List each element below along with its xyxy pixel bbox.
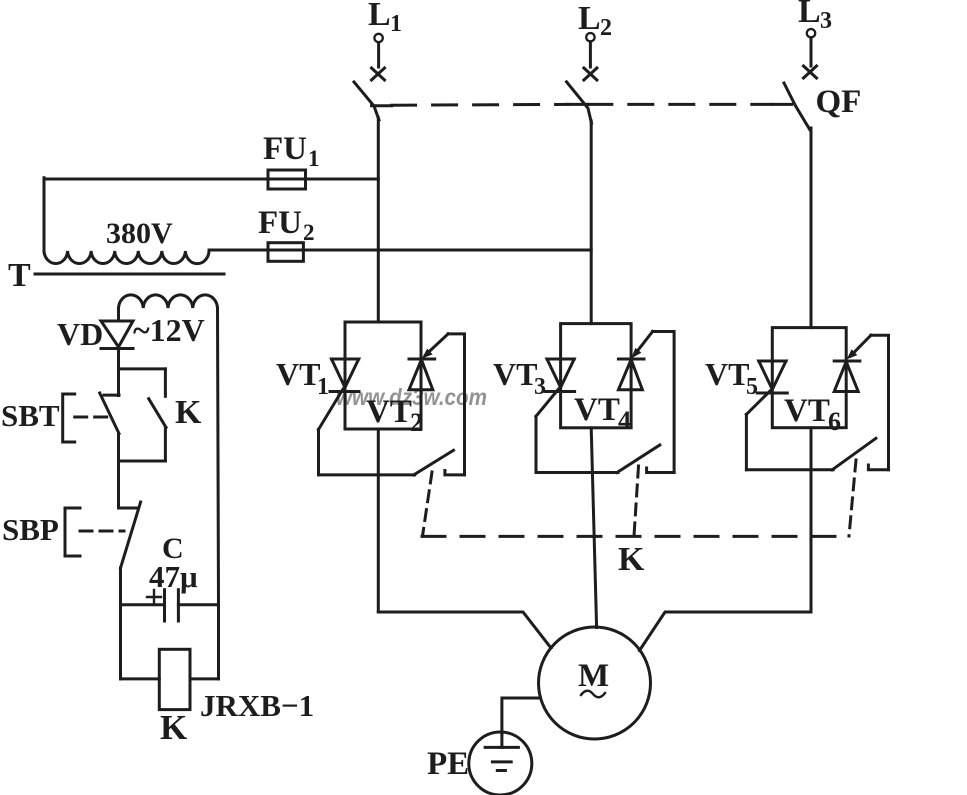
svg-text:PE: PE xyxy=(427,746,469,782)
wire coil right lead xyxy=(190,677,219,680)
contact K self-hold blade xyxy=(149,399,166,428)
fuse FU1 label xyxy=(263,131,320,171)
node L2 xyxy=(578,0,612,41)
wire parallel branch top xyxy=(119,367,166,370)
terminal L1 xyxy=(374,34,382,42)
terminal L3 xyxy=(807,29,815,37)
wire phase 2 vertical xyxy=(590,121,593,324)
wire block1 gate bottom xyxy=(319,473,415,476)
wire block2 gate left vertical xyxy=(535,416,538,472)
contact K self-hold lower lead xyxy=(164,427,167,461)
wire block2 right vertical xyxy=(653,332,675,473)
svg-text:JRXB−1: JRXB−1 xyxy=(200,688,314,723)
wire motor right feeder xyxy=(640,612,812,651)
wire L3 lead xyxy=(810,38,813,66)
svg-text:3: 3 xyxy=(820,8,832,34)
thyristor block 3 rectangle xyxy=(772,328,846,428)
pushbutton SBT blade xyxy=(100,393,119,434)
svg-text:QF: QF xyxy=(816,84,862,120)
transformer T secondary winding xyxy=(119,295,218,308)
thyristor VT4 xyxy=(618,358,644,361)
motor M circle xyxy=(539,627,651,739)
breaker QF pole 3 blade xyxy=(784,83,811,131)
wire parallel branch bottom xyxy=(119,460,166,463)
wire phase 1 vertical xyxy=(377,118,380,322)
breaker QF pole 1 blade xyxy=(354,82,379,120)
contact K bypass 3 fixed xyxy=(868,465,888,470)
transformer T core xyxy=(35,273,224,276)
pushbutton SBT actuator dashed xyxy=(75,416,112,419)
dashed linkage riser 3 xyxy=(849,460,856,536)
svg-text:6: 6 xyxy=(828,407,841,436)
ground symbol xyxy=(500,734,503,747)
thyristor VT1 gate xyxy=(319,389,344,430)
wire FU2 line xyxy=(209,249,591,252)
thyristor block 1 rectangle xyxy=(345,322,421,429)
wire left branch down xyxy=(117,434,120,509)
svg-text:L: L xyxy=(368,0,391,33)
wire below SBP xyxy=(119,568,122,679)
diode VD xyxy=(101,321,133,347)
fuse FU1 xyxy=(268,170,306,189)
svg-text:VT: VT xyxy=(705,356,749,392)
earth PE circle xyxy=(469,732,532,795)
fuse FU2 label xyxy=(258,205,315,245)
contact K bypass 2 blade xyxy=(617,445,660,473)
wire phase 3 lower vertical xyxy=(810,428,813,612)
svg-text:L: L xyxy=(798,0,821,30)
capacitor C right lead xyxy=(178,603,218,606)
wire phase 2 lower vertical xyxy=(591,428,596,628)
breaker cross mark L1 xyxy=(372,68,385,80)
thyristor VT5 xyxy=(759,360,786,363)
thyristor VT3 gate xyxy=(536,389,559,416)
svg-text:1: 1 xyxy=(317,374,329,400)
capacitor plus sign xyxy=(147,596,161,598)
pushbutton SBP bracket xyxy=(65,508,80,556)
svg-text:4: 4 xyxy=(618,406,631,435)
wire secondary left drop xyxy=(117,308,120,321)
wire L1 lead xyxy=(377,43,380,68)
dashed linkage riser 2 xyxy=(634,466,639,536)
svg-text:SBT: SBT xyxy=(1,398,60,433)
svg-text:2: 2 xyxy=(410,408,423,437)
svg-text:380V: 380V xyxy=(106,217,173,250)
thyristor VT5 label xyxy=(705,356,758,400)
QF pole 3 fixed tick xyxy=(773,103,792,106)
svg-text:K: K xyxy=(175,394,202,431)
contact K bypass 3 blade xyxy=(832,438,876,470)
svg-text:VT: VT xyxy=(366,394,412,430)
svg-text:VT: VT xyxy=(784,393,830,429)
thyristor VT3 xyxy=(547,358,574,361)
wire phase 1 lower vertical xyxy=(377,429,380,612)
thyristor block 2 rectangle xyxy=(561,324,632,428)
thyristor VT3 label xyxy=(493,356,546,400)
svg-text:K: K xyxy=(618,541,645,578)
contact K bypass 2 fixed xyxy=(647,468,675,473)
contact K self-hold upper lead xyxy=(164,369,167,396)
pushbutton SBT bracket xyxy=(63,394,75,442)
wire block1 right vertical xyxy=(448,334,464,475)
svg-text:FU: FU xyxy=(263,131,307,167)
svg-text:~12V: ~12V xyxy=(133,312,205,348)
breaker cross mark L2 xyxy=(584,68,597,80)
thyristor VT6 xyxy=(834,360,860,363)
thyristor VT6 gate xyxy=(851,335,871,356)
pushbutton SBP actuator dashed xyxy=(80,530,124,533)
svg-text:VT: VT xyxy=(574,392,620,428)
thyristor VT1 label xyxy=(276,356,329,400)
contact K bypass 1 fixed xyxy=(445,471,465,475)
thyristor VT2 gate xyxy=(426,334,449,355)
wire transformer left riser xyxy=(43,178,46,251)
node L3 xyxy=(798,0,832,34)
breaker cross mark L3 xyxy=(804,66,817,78)
dashed linkage K horizontal xyxy=(422,535,848,538)
svg-text:VT: VT xyxy=(276,356,320,392)
dashed linkage riser 1 xyxy=(423,472,433,536)
terminal L2 xyxy=(586,33,594,41)
thyristor VT1 xyxy=(332,358,359,361)
wire block1 gate left vertical xyxy=(317,430,320,475)
svg-text:1: 1 xyxy=(308,146,320,171)
thyristor VT4 gate xyxy=(635,332,653,355)
QF pole 2 fixed tick xyxy=(568,103,588,106)
fuse FU2 xyxy=(268,243,303,262)
wire below diode xyxy=(117,349,120,396)
pushbutton SBT fixed tick xyxy=(104,394,119,397)
wire block3 right vertical xyxy=(871,335,889,470)
transformer T primary winding xyxy=(44,251,209,264)
thyristor VT2 xyxy=(409,358,435,361)
thyristor VT6 label xyxy=(784,393,841,436)
pushbutton SBP fixed tick xyxy=(121,507,137,510)
thyristor VT2 label xyxy=(366,394,423,437)
capacitor C left lead xyxy=(121,603,165,606)
svg-text:5: 5 xyxy=(746,374,758,400)
wire block3 gate bottom xyxy=(746,468,833,471)
svg-text:47μ: 47μ xyxy=(149,559,198,594)
svg-text:SBP: SBP xyxy=(2,512,59,547)
QF linkage dashed xyxy=(392,103,568,107)
svg-text:FU: FU xyxy=(258,205,302,241)
capacitor C plates xyxy=(163,590,166,621)
wire motor left feeder xyxy=(378,612,551,648)
motor tilde xyxy=(581,691,605,698)
QF pole 1 fixed tick xyxy=(372,104,392,107)
svg-text:2: 2 xyxy=(600,15,612,41)
wire phase 3 vertical xyxy=(810,128,813,328)
svg-text:VT: VT xyxy=(493,356,537,392)
wire secondary return vertical xyxy=(218,308,219,679)
wire L2 lead xyxy=(589,42,592,67)
thyristor VT4 label xyxy=(574,392,631,435)
svg-text:M: M xyxy=(578,658,609,694)
wire FU1 line xyxy=(44,178,378,181)
pushbutton SBP blade xyxy=(121,502,141,568)
svg-text:1: 1 xyxy=(390,11,402,37)
wire coil left lead xyxy=(121,677,160,680)
svg-text:K: K xyxy=(160,708,187,747)
svg-text:L: L xyxy=(578,0,601,37)
wire block3 gate left vertical xyxy=(745,414,748,469)
thyristor VT5 gate xyxy=(746,391,770,414)
node L1 xyxy=(368,0,402,37)
svg-text:T: T xyxy=(8,257,31,294)
svg-text:3: 3 xyxy=(534,374,546,400)
wire block2 gate bottom xyxy=(536,471,618,474)
relay coil K xyxy=(159,649,190,709)
wire motor earth lead xyxy=(502,698,541,734)
svg-text:VD: VD xyxy=(57,316,103,352)
breaker QF pole 2 blade xyxy=(567,82,592,124)
contact K bypass 1 blade xyxy=(414,450,454,475)
